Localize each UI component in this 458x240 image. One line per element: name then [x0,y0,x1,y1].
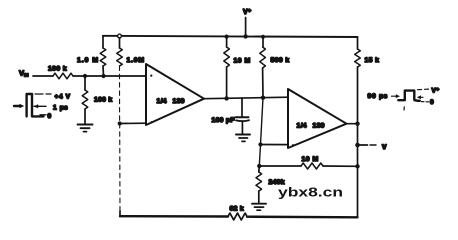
node junction input/1.0M left [101,74,105,78]
svg-text:1.0M: 1.0M [127,57,145,64]
svg-text:v: v [382,142,387,151]
resistor 100k to ground [84,76,86,90]
node junction input/100k-gnd [83,74,87,78]
svg-text:1/4: 1/4 [157,98,167,105]
wire output column [357,67,359,217]
node junction U2 inverting branch [258,142,262,146]
wire U1 output line to U2 input [204,97,288,99]
resistor 240k [258,166,261,172]
svg-text:100 pF: 100 pF [212,117,235,124]
svg-text:V⁺: V⁺ [432,88,440,95]
resistor 560k [262,37,264,47]
arrow 90us right [392,95,397,97]
svg-text:62 k: 62 k [230,206,244,213]
svg-text:90 μs: 90 μs [368,93,388,100]
ground below 240k [252,203,266,205]
resistor 62k [228,213,247,220]
svg-text:100 k: 100 k [94,97,113,104]
ground below capacitor [236,134,250,136]
svg-text:0: 0 [48,113,52,120]
node divider junction 240k/10M [257,164,261,168]
svg-text:1 μs: 1 μs [53,105,68,112]
arrow to input pulse [20,104,25,109]
svg-text:10 M: 10 M [302,156,319,163]
wire bottom feedback wire [120,215,228,218]
wire 560k column down to divider node [259,98,263,166]
resistor 1.0M right [118,34,122,38]
svg-text:560 k: 560 k [271,57,290,64]
ground below 100k [78,124,93,126]
arrow 1us [34,105,46,107]
svg-text:+4 V: +4 V [55,94,71,101]
node V+ [245,18,247,37]
svg-text:ybx8.cn: ybx8.cn [278,186,343,200]
wire to U2 lower input [261,144,289,146]
wire dashed from 1.0M right down across input line [119,66,121,124]
svg-text:100 k: 100 k [48,66,67,73]
svg-text:15 k: 15 k [365,57,380,64]
node junction U2 output [355,122,359,126]
svg-text:1.0 M: 1.0 M [77,57,99,64]
svg-text:139: 139 [173,98,185,105]
leader 0 [40,114,46,116]
wire output stub [358,144,368,146]
resistor 100k input [53,73,73,79]
capacitor C1 100 pF [241,98,243,117]
tick below rising edge [403,107,405,110]
wire dashed down to bottom feedback wire [119,124,121,214]
node junction 10M pull-up / output [224,96,228,100]
node junction output stub [355,143,360,148]
resistor 10M pull-up [226,37,228,47]
wire bottom wire right segment [247,215,358,218]
pin - mark U1 [151,121,153,123]
arrow left at falling edge [419,96,424,98]
node junction 10M feedback / column [355,164,359,168]
svg-text:139: 139 [313,123,325,130]
node junction lower input [118,121,122,125]
wire input lead [33,75,53,77]
leader 0 dotted [422,101,429,103]
op-amp U1 comparator 1/4 139 [146,64,204,125]
pin + mark U1 [150,75,152,77]
wire comparator U1 inverting input [120,122,146,124]
resistor 10M feedback [259,165,301,167]
op-amp U2 comparator 1/4 139 [288,89,347,148]
svg-text:0: 0 [430,99,434,106]
pulse shape [398,91,420,101]
svg-text:10 M: 10 M [234,58,251,65]
leader V+ dashed [418,88,429,91]
svg-text:V⁺: V⁺ [243,9,252,16]
resistor 1.0M left [102,36,104,48]
wire U2 output to column [347,123,358,125]
node junction 560k column / output [261,96,265,100]
wire input line to comparator [73,75,146,77]
wire top supply rail [103,36,358,37]
resistor 15k [357,37,359,49]
pin + mark U2 [292,144,294,146]
input pulse waveform [14,94,44,116]
svg-text:1/4: 1/4 [297,123,307,130]
leader +4V dashed [35,93,51,95]
